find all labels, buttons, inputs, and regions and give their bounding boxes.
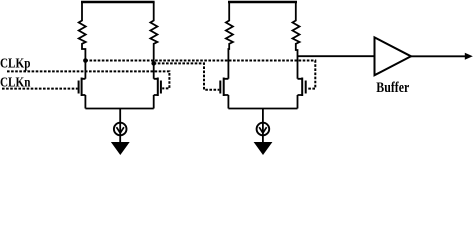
svg-text:CLKp: CLKp <box>0 57 31 72</box>
svg-text:Buffer: Buffer <box>376 80 409 96</box>
svg-text:CLKn: CLKn <box>0 75 31 90</box>
